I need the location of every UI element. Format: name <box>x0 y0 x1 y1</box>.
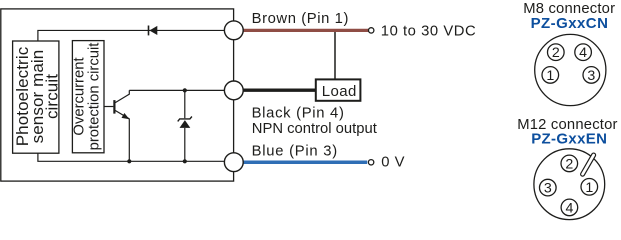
svg-text:circuit: circuit <box>42 74 61 119</box>
svg-text:10 to 30 VDC: 10 to 30 VDC <box>381 24 476 40</box>
svg-text:0 V: 0 V <box>381 155 405 171</box>
svg-text:3: 3 <box>544 181 552 197</box>
svg-text:Load: Load <box>322 83 357 100</box>
svg-text:4: 4 <box>565 200 573 216</box>
svg-text:2: 2 <box>552 45 560 61</box>
svg-text:PZ-GxxCN: PZ-GxxCN <box>531 15 609 32</box>
svg-text:Black (Pin 4): Black (Pin 4) <box>252 105 345 121</box>
svg-text:PZ-GxxEN: PZ-GxxEN <box>531 130 607 147</box>
svg-text:protection circuit: protection circuit <box>87 43 103 151</box>
svg-text:Overcurrent: Overcurrent <box>72 57 88 135</box>
svg-text:Brown (Pin 1): Brown (Pin 1) <box>252 11 349 27</box>
svg-text:3: 3 <box>587 68 595 84</box>
svg-text:2: 2 <box>565 156 573 172</box>
svg-text:1: 1 <box>585 180 593 196</box>
svg-text:Blue (Pin 3): Blue (Pin 3) <box>252 143 338 159</box>
svg-text:1: 1 <box>546 68 554 84</box>
svg-text:4: 4 <box>579 45 587 61</box>
svg-text:NPN control output: NPN control output <box>252 121 377 137</box>
